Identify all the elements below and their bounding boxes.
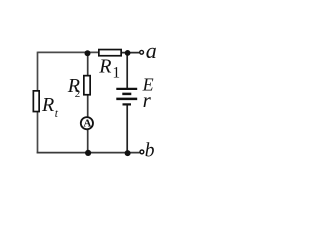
svg-text:t: t: [55, 108, 59, 120]
battery plate short lower: [123, 103, 132, 105]
battery plate long top: [116, 88, 137, 90]
resistor R2 (vertical box, middle branch): [84, 76, 90, 95]
wire right vertical (battery branch, upper): [126, 53, 128, 89]
node junction dot bottom (battery branch): [125, 150, 131, 156]
svg-text:a: a: [146, 38, 157, 63]
node junction dot top (R2 branch tap): [85, 50, 91, 56]
svg-text:A: A: [83, 118, 91, 130]
svg-text:R: R: [98, 56, 111, 78]
svg-text:2: 2: [75, 88, 81, 100]
node junction dot top right (battery tap): [125, 50, 131, 56]
wire right vertical (battery branch, lower): [126, 105, 128, 154]
terminal a (open circle): [140, 50, 144, 54]
resistor Rt (vertical box, left branch): [33, 91, 39, 112]
battery plate long bottom: [116, 98, 137, 101]
ammeter A (circle, middle branch): [81, 117, 93, 129]
battery plate short upper: [122, 93, 131, 96]
wire top right segment: [121, 52, 140, 54]
svg-text:b: b: [145, 141, 155, 162]
svg-text:r: r: [143, 88, 152, 112]
svg-text:R: R: [41, 94, 54, 116]
svg-text:1: 1: [112, 65, 120, 82]
node junction dot bottom (R2 branch): [85, 150, 91, 156]
wire bottom horizontal: [37, 152, 140, 154]
wire middle vertical: [87, 52, 89, 153]
wire left vertical: [37, 52, 39, 154]
terminal b (open circle): [140, 150, 144, 154]
resistor R1 (horizontal box, top): [99, 50, 121, 56]
wire top horizontal: [38, 51, 100, 53]
